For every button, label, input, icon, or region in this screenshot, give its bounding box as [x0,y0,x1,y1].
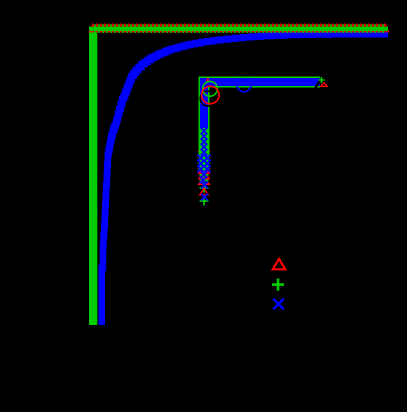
inset red triangle marker lower tail [200,188,208,195]
green curve horizontal segment (TPR=1) [89,27,388,31]
green curve vertical segment (FPR=0) [89,27,97,325]
legend green plus marker [272,279,284,291]
red circle marker [202,86,220,104]
inset green curve band (L) [204,82,320,170]
blue ROC curve (stepped) [102,34,388,325]
inset blue x markers on vertical drop [198,128,211,201]
green line over top markers [89,27,388,31]
black inset connector line [314,75,324,90]
inset end green plus [319,77,325,83]
blue circle marker [237,78,251,92]
legend red triangle marker [273,259,286,269]
inset green top edge over blue circle [235,77,253,79]
inset end red triangle [321,83,328,87]
inset red triangle markers on vertical drop [199,143,209,184]
inset green plus markers on vertical drop [200,143,209,205]
black circle marker [200,91,215,106]
inset corner red triangle tip [206,78,209,80]
green circle marker [203,81,218,96]
inset blue curve band (L) [204,82,320,128]
green plus markers along top line [95,24,383,33]
red triangle markers along top line [89,24,388,32]
legend blue x marker [273,299,284,310]
